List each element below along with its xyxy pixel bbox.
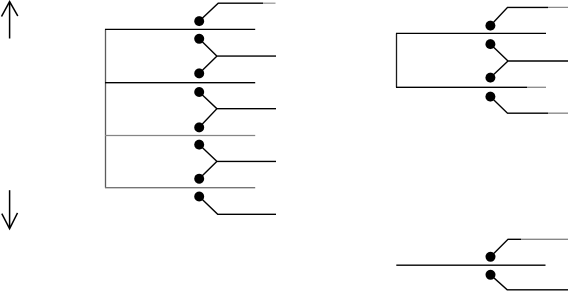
wire: left level line A4 [105, 187, 255, 189]
node a5 [194, 122, 204, 132]
node a2 [194, 34, 204, 44]
node c2 [486, 270, 496, 280]
arrow up (energy axis, upward) [2, 2, 18, 39]
wire: bottom output Q1 (diagonal up + horizontal) [491, 239, 522, 256]
wire: right level line B1 [396, 32, 546, 34]
node b2 [485, 39, 495, 49]
arrow down (energy axis, downward) [2, 190, 18, 229]
wire: left output O4 (V join of a6,a7 + horizontal) [199, 145, 276, 179]
wire: left bracket vertical [105, 29, 107, 187]
wire: right output P2 (V join of b2,b3 + horizontal) [490, 44, 568, 78]
wire: right output P1 (diagonal up + horizontal) [490, 7, 548, 25]
wire: left output O5 (diagonal down + horizontal) [199, 197, 276, 215]
wire: left output O2 (V join of a2,a3 + horizontal) [199, 39, 276, 74]
node a6 [194, 140, 204, 150]
node a7 [194, 174, 204, 184]
node c1 [486, 252, 496, 262]
wire: right bracket vertical [396, 33, 398, 87]
node b4 [485, 92, 495, 102]
wire: left output O3 (V join of a4,a5 + horizontal) [199, 92, 276, 127]
wire: left level line A2 [105, 82, 255, 84]
node b1 [485, 21, 495, 31]
node a3 [194, 68, 204, 78]
node a1 [194, 16, 204, 26]
wire: left level line A1 [105, 28, 255, 30]
wire: bottom level line C1 [396, 264, 545, 266]
wire: right level line B2 [396, 86, 527, 88]
node b3 [485, 73, 495, 83]
wire: left level line A3 [105, 135, 255, 137]
wire: right output P3 (diagonal down + horizontal) [490, 97, 548, 114]
wire: left output O1 (diagonal up + horizontal) [199, 3, 263, 21]
node a4 [194, 87, 204, 97]
node a8 [194, 192, 204, 202]
wire: bottom output Q2 (diagonal down + horizontal) [491, 275, 568, 290]
